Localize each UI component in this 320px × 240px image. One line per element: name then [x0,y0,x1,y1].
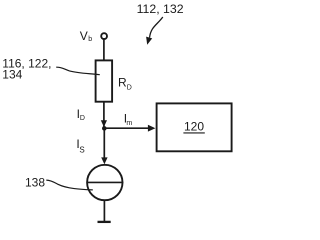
current source 138 [87,165,124,200]
svg-text:V: V [80,29,88,43]
wire resistor to junction with current arrow ID [101,102,107,128]
wire current source to ground [103,200,105,221]
svg-text:138: 138 [25,175,45,189]
wire Vb terminal to resistor [103,40,105,61]
net label Vb [80,29,92,43]
svg-text:D: D [127,85,132,92]
svg-text:134: 134 [2,68,22,82]
wire Im arrow to block 120 [104,125,155,132]
svg-text:b: b [88,36,92,43]
label ID [77,107,85,122]
lead-line arrow to 112, 132 [146,17,163,45]
lead line from 138 to current source [46,180,93,190]
label 120 [183,119,204,133]
resistor RD [96,60,113,101]
wire junction to current source with current arrow IS [101,128,107,164]
svg-text:S: S [79,145,84,154]
junction node [102,126,107,131]
label 116, 122, 134 [2,56,51,81]
svg-text:R: R [118,76,127,90]
block 120 [157,103,232,151]
label Im [124,111,133,127]
svg-text:D: D [80,115,85,122]
svg-text:m: m [126,120,132,127]
svg-text:112, 132: 112, 132 [137,2,184,16]
lead line from 116,122,134 to resistor [56,67,100,75]
svg-text:120: 120 [184,119,204,133]
label IS [76,137,84,154]
terminal Vb [101,33,107,39]
value label RD [118,76,132,92]
ground [98,221,111,223]
